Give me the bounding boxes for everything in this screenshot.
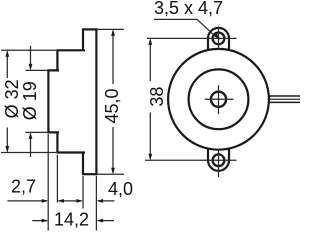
svg-text:Ø 19: Ø 19 [20,81,40,120]
svg-text:14,2: 14,2 [54,209,89,229]
svg-text:38: 38 [147,87,167,107]
svg-text:3,5 x 4,7: 3,5 x 4,7 [154,0,223,18]
svg-text:Ø 32: Ø 32 [2,79,22,118]
svg-text:2,7: 2,7 [11,177,36,197]
svg-text:45,0: 45,0 [102,88,122,123]
svg-text:4,0: 4,0 [108,179,133,199]
